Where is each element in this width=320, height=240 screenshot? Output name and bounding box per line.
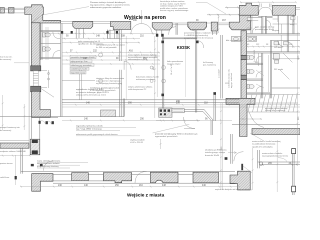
pilaster top band F + corner foot xyxy=(229,15,250,30)
svg-text:przewód wentylacyjny fi160 w o: przewód wentylacyjny fi160 w obudowie g-… xyxy=(155,133,198,136)
bottom-right door jamb dark xyxy=(241,164,243,170)
wall right vertical band xyxy=(241,31,247,56)
wall top-left corner mass xyxy=(25,5,61,23)
corridor south wall / hall north edge xyxy=(62,100,240,103)
svg-text:korytarz: korytarz xyxy=(272,29,279,32)
door diagonal left wall xyxy=(41,89,54,98)
svg-text:na podbudowie betonowej: na podbudowie betonowej xyxy=(252,143,276,146)
framed label hall 5 xyxy=(70,71,86,74)
EXTRA DETAIL xyxy=(99,7,300,127)
SMALL DARK JAMBS xyxy=(15,31,228,179)
dim string vertical x252 bottom right xyxy=(252,148,254,190)
INTERIOR PARTITIONS xyxy=(0,15,300,195)
door arc bottom-right inner xyxy=(234,152,244,162)
door arc kiosk elbow xyxy=(183,117,195,129)
door frame rect below block B xyxy=(108,30,120,38)
leader top-left annotation xyxy=(43,7,89,15)
arch top-right gap xyxy=(259,7,273,15)
corner mass diagonal xyxy=(32,15,43,23)
partition corridor east of kiosk xyxy=(221,35,223,99)
toilet right wall 2 xyxy=(247,69,249,73)
bottom band line lower xyxy=(53,182,235,184)
right rooms north partition y40 xyxy=(270,40,300,42)
right rooms vert partition x278 xyxy=(277,15,279,33)
door arc hall mid xyxy=(124,61,131,70)
right lower vertical pair xyxy=(230,134,232,164)
right rooms horiz y20.6 xyxy=(247,20,253,22)
door arc rooms above kiosk 2 xyxy=(188,23,196,31)
wall left band jamb upper xyxy=(31,66,41,71)
top right interior door arc b xyxy=(287,42,293,48)
top right room lines xyxy=(247,19,282,34)
framed label hall 3 xyxy=(70,63,94,66)
left wall inner face to bottom corner xyxy=(21,148,23,174)
dim ticks y120 xyxy=(70,119,221,121)
svg-text:WC: WC xyxy=(255,62,259,64)
radiator block mid xyxy=(101,110,116,117)
door leaf diagonal right room b xyxy=(280,70,289,79)
dim vertical far left xyxy=(2,95,4,130)
svg-text:parapet kamienny istn.: parapet kamienny istn. xyxy=(0,126,21,129)
partition rooms above kiosk xyxy=(176,23,177,35)
pier top band E xyxy=(211,22,217,31)
svg-text:poziom terenu: poziom terenu xyxy=(0,162,13,165)
wall bottom-left door pier xyxy=(30,139,40,155)
leader left margin text xyxy=(14,62,29,64)
dim vertical left margin xyxy=(23,104,25,130)
svg-text:odtworzenie profili gzymsowych: odtworzenie profili gzymsowych cokołu ka… xyxy=(76,133,118,136)
svg-text:h= 340 cm od posadzki: h= 340 cm od posadzki xyxy=(96,47,117,49)
jamb kiosk west top xyxy=(161,41,164,44)
dim string y46 top right xyxy=(246,46,300,48)
svg-text:cokolik kam. h=10: cokolik kam. h=10 xyxy=(71,69,88,71)
dim ticks x220 xyxy=(220,111,222,183)
circle symbol kiosk wall 2 xyxy=(162,79,166,83)
right rooms horiz partition y52 xyxy=(247,52,301,53)
DIMENSION LINES xyxy=(0,3,300,192)
svg-text:nawierzchnia z kostki kamienne: nawierzchnia z kostki kamiennej xyxy=(252,140,281,143)
svg-text:próg kamienny obniżony: próg kamienny obniżony xyxy=(37,166,59,168)
dim leader to north door xyxy=(141,10,143,23)
jamb bottom-left door top xyxy=(32,140,38,143)
svg-text:istniejące filary do wzmocnien: istniejące filary do wzmocnienia xyxy=(96,77,125,80)
dim ticks left margin xyxy=(23,107,25,127)
svg-text:parapety kamienne do renowacji: parapety kamienne do renowacji xyxy=(184,36,213,39)
dim vertical right inner x268 xyxy=(267,55,269,92)
svg-text:izolacja wełna mineralna gr. 1: izolacja wełna mineralna gr. 10cm xyxy=(76,94,106,96)
right rooms horiz y17.6 xyxy=(251,17,273,19)
jamb kiosk east top xyxy=(196,41,199,44)
partition left rooms horiz 2 xyxy=(41,42,61,44)
dim string top interior xyxy=(44,33,158,35)
grid bubble right lower xyxy=(259,162,263,166)
basin a xyxy=(234,37,239,40)
svg-text:fuga 3mm szara: fuga 3mm szara xyxy=(71,72,86,74)
wall bottom band block 2 xyxy=(103,173,131,183)
right rooms vert partition x270 xyxy=(270,41,271,99)
dim line left of corner mass xyxy=(225,7,240,9)
door arc bottom entrance xyxy=(135,171,147,183)
leader right lower note xyxy=(243,166,252,173)
svg-text:blat z umywalkami: blat z umywalkami xyxy=(226,39,243,42)
grid bubble hall b xyxy=(99,79,103,83)
sink right room a xyxy=(274,42,279,45)
right rooms south partition y33-35 xyxy=(247,34,301,35)
partition kiosk west wall xyxy=(162,37,163,109)
mullion squares kiosk corner xyxy=(160,109,162,111)
svg-text:wg zagospodarowania terenu: wg zagospodarowania terenu xyxy=(262,155,288,158)
bottom band line upper xyxy=(21,170,235,172)
stair walk line xyxy=(256,102,298,104)
tick line mid xyxy=(160,139,162,149)
door arc right rooms y33 xyxy=(252,27,258,34)
partition mid vertical lower xyxy=(123,99,124,117)
pilaster top band A xyxy=(73,21,93,28)
wall right vertical band low xyxy=(241,80,247,99)
dim ticks top interior xyxy=(58,33,154,35)
dim ticks bottom xyxy=(21,186,232,188)
svg-text:wg 7 wyp.1980r renowacja: wg 7 wyp.1980r renowacja xyxy=(76,127,103,130)
dim string hall horizontal y104 xyxy=(62,105,232,107)
dim string hall 0b xyxy=(62,42,140,44)
svg-text:lico muru istn.: lico muru istn. xyxy=(0,56,13,59)
right rooms extra verticals xyxy=(258,16,281,66)
window band segment 4 xyxy=(207,23,230,25)
right rooms corridor line y16 xyxy=(258,15,272,17)
door arc cell 1 xyxy=(256,56,262,62)
partition below pilaster C xyxy=(157,30,162,34)
window band segment 1 xyxy=(61,22,73,24)
partition left rooms vertical xyxy=(41,23,42,60)
wall lines right of mass xyxy=(296,7,300,9)
wall right band jamb xyxy=(241,55,247,59)
toilet left room 2 xyxy=(43,47,46,51)
jamb marks below left foot xyxy=(39,121,41,124)
grid bubble hall a xyxy=(99,53,103,57)
dim ticks x218 xyxy=(218,17,220,30)
leader right rooms xyxy=(256,70,264,88)
WALLS-GROUP xyxy=(0,3,300,191)
door leaf diagonal right room a xyxy=(283,53,292,62)
leader top-mid annotation xyxy=(196,3,226,14)
pilaster top band C xyxy=(152,23,172,30)
stair lower flight rail xyxy=(249,112,264,128)
circles left wall xyxy=(48,73,50,75)
axis line hall xyxy=(125,36,127,100)
svg-text:Wyjście na peron: Wyjście na peron xyxy=(124,15,166,21)
window band segment 2 xyxy=(93,22,111,24)
lower mid line y124 xyxy=(232,124,300,126)
svg-text:tynki renowacyjne kat. III: tynki renowacyjne kat. III xyxy=(78,40,100,43)
hall upper line y80 xyxy=(62,80,95,82)
svg-text:wg ekspertyzy konstrukcyjnej: wg ekspertyzy konstrukcyjnej xyxy=(96,82,122,85)
BOLD LABELS xyxy=(124,15,190,197)
dim short kiosk sw xyxy=(156,120,200,122)
jamb small mark x225 xyxy=(225,157,228,160)
dim vertical left x15.7 xyxy=(15,155,17,185)
svg-text:na ruszcie stalowym, płyta 2x1: na ruszcie stalowym, płyta 2x12.5 xyxy=(76,91,109,94)
svg-text:1 x 14x47: 1 x 14x47 xyxy=(218,68,220,78)
dim string vertical x277 bottom right xyxy=(276,140,278,192)
svg-text:układ wg rys. posadzek: układ wg rys. posadzek xyxy=(71,65,92,67)
wall bottom-right stepped mass xyxy=(230,171,250,190)
jamb bottom-left entry xyxy=(31,164,34,166)
basin b xyxy=(248,37,252,40)
dim line y104 right extension xyxy=(232,105,300,107)
right lower horizontals xyxy=(258,162,300,165)
door stubs left wall xyxy=(41,71,47,88)
right rooms horiz partition y79 xyxy=(247,79,263,80)
dim vertical top-mid x218 xyxy=(218,14,220,33)
svg-text:nowa stolarka drzwiowa: nowa stolarka drzwiowa xyxy=(37,159,61,162)
partition mid vertical upper xyxy=(119,30,121,117)
face line above left-bottom band xyxy=(0,140,29,142)
svg-text:spadek 2% od budynku: spadek 2% od budynku xyxy=(252,146,273,148)
dim ticks y104 xyxy=(75,104,297,106)
svg-text:witryna aluminiowa szklona: witryna aluminiowa szklona xyxy=(128,85,153,88)
svg-text:do renowacji: do renowacji xyxy=(0,130,12,132)
sink right room b xyxy=(284,42,289,45)
dim ticks x277 xyxy=(276,151,278,183)
right rooms horiz partition y63 xyxy=(247,63,263,64)
column marker 2 xyxy=(292,186,296,192)
mullion squares kiosk corner row2 xyxy=(160,113,162,115)
dim ticks hall 0a xyxy=(64,38,134,40)
STAIRS top-right xyxy=(247,95,300,113)
stair treads xyxy=(248,95,297,113)
wall left vertical band upper xyxy=(31,23,40,67)
circle symbol kiosk wall 1 xyxy=(162,66,166,70)
dim ticks right margin xyxy=(297,33,299,165)
svg-text:płyty granit gr. 3cm: płyty granit gr. 3cm xyxy=(71,60,88,63)
leader bottom-left annotations xyxy=(37,162,88,168)
wall bottom band block 1 xyxy=(72,173,89,181)
dim string left lower horizontal xyxy=(0,155,30,157)
door arcs main north entrance xyxy=(131,24,152,35)
svg-text:schody istn. renowacja: schody istn. renowacja xyxy=(265,109,286,112)
svg-text:WC męski: WC męski xyxy=(274,69,284,71)
partition below left mass xyxy=(251,15,252,33)
right rooms horiz partition y94 xyxy=(247,93,271,95)
fixtures top right small xyxy=(248,18,251,21)
wall face line left xyxy=(28,15,30,144)
toilet right wall 3 xyxy=(247,84,249,88)
dim string left upper interior xyxy=(46,27,48,60)
dim ticks hall 0b xyxy=(70,42,139,44)
basin c xyxy=(253,37,256,40)
circle symbol hall wall 1 xyxy=(150,66,153,69)
column axis right xyxy=(293,148,295,195)
dim string hall 4 xyxy=(62,63,160,65)
door arc left rooms xyxy=(53,32,60,58)
right rooms vert partition x262 upper xyxy=(262,17,263,34)
dim string hall 3 xyxy=(62,59,160,61)
svg-text:KIOSK: KIOSK xyxy=(177,45,190,50)
door frame lines top-right gap xyxy=(260,4,271,8)
wall top-right right mass xyxy=(273,5,296,15)
leader kiosk vent xyxy=(153,124,190,133)
wall left vertical band lower with foot xyxy=(31,91,50,117)
toilet left room 1 xyxy=(43,33,46,37)
shower tray right room xyxy=(273,54,279,60)
leader stairs note xyxy=(250,133,264,141)
kiosk counter bar xyxy=(172,109,184,113)
svg-text:instalacyjnego, rewizja: instalacyjnego, rewizja xyxy=(205,151,226,154)
kiosk mullion line xyxy=(184,39,186,97)
ANNOTATION TEXT BLOCKS (tiny) xyxy=(0,0,288,179)
svg-text:-0.02 = 210.31: -0.02 = 210.31 xyxy=(130,142,144,144)
svg-text:mocow. wg proj. warsztatowego: mocow. wg proj. warsztatowego xyxy=(160,9,189,12)
door arc corridor right of kiosk xyxy=(197,41,204,49)
svg-text:wejście do budynku od strony z: wejście do budynku od strony zachodniej xyxy=(215,188,252,191)
right lower corridor lines xyxy=(258,150,260,168)
partition below pier E xyxy=(212,31,216,35)
dim ticks x252 xyxy=(252,159,254,184)
partition kiosk east wall xyxy=(195,30,197,113)
svg-text:WC dam.: WC dam. xyxy=(274,47,283,49)
right rooms vert partition x293 xyxy=(293,15,294,33)
dim string vertical right margin xyxy=(296,16,298,164)
dim string top-right y2 xyxy=(240,1,296,3)
right lower dim ticks xyxy=(262,164,297,166)
door arc cell 2 xyxy=(256,72,262,78)
window band segment 3 xyxy=(172,23,188,25)
window lintel top-left xyxy=(0,8,4,13)
dim string y120 xyxy=(62,119,232,121)
window pier top-left xyxy=(8,8,14,13)
door arc cell 3 xyxy=(256,86,262,92)
right mid horiz y88 xyxy=(272,87,300,89)
door arc rooms above kiosk 1 xyxy=(169,27,177,35)
COLUMN MARKERS bottom right xyxy=(292,149,296,192)
dim ticks top-right xyxy=(240,1,297,3)
partition left rooms horiz 1 xyxy=(41,31,61,32)
svg-text:Wejście z miasta: Wejście z miasta xyxy=(127,192,165,197)
svg-text:1 x 14x17x29: 1 x 14x17x29 xyxy=(254,49,256,62)
svg-text:wg rys. rozbiórek: wg rys. rozbiórek xyxy=(231,73,233,88)
svg-text:do renowacji: do renowacji xyxy=(0,59,12,61)
small partition top right xyxy=(278,15,294,22)
tick line left wall xyxy=(48,70,50,88)
top right inner line y24 xyxy=(273,23,298,25)
kiosk sw corner block xyxy=(159,108,172,117)
stair boundary lines xyxy=(247,95,300,113)
svg-text:mag.: mag. xyxy=(290,24,295,26)
framed label hall 2 xyxy=(70,60,92,63)
DOOR ARCS interior xyxy=(41,23,293,183)
dim ticks hall xyxy=(66,51,159,65)
framed label hall 4 xyxy=(70,67,89,70)
right rooms vert partition x287 xyxy=(287,15,288,52)
dim string vertical x220 lower xyxy=(221,103,223,190)
jamb bottom-left door bottom xyxy=(32,150,38,154)
circle symbol hall wall 2 xyxy=(150,80,153,83)
right rooms cell wall x262 xyxy=(262,53,263,98)
svg-text:wyprawka tynkarska cokołu: wyprawka tynkarska cokołu xyxy=(76,125,103,128)
door arc right rooms y40 xyxy=(278,41,284,47)
hall south line xyxy=(0,116,124,119)
partition kiosk north xyxy=(162,37,196,40)
bottom band inner lines xyxy=(53,175,193,181)
DIMENSION NUMBERS (tiny) xyxy=(58,36,208,187)
wall right horizontal band xyxy=(226,98,255,136)
jamb kiosk east bottom xyxy=(213,92,216,95)
svg-text:odtworzenie gzymsów nadokien.: odtworzenie gzymsów nadokien. xyxy=(90,6,122,9)
dim string hall 2 xyxy=(62,55,160,57)
svg-text:nadproże stalowe 2xHEB140: nadproże stalowe 2xHEB140 xyxy=(0,150,27,153)
FIXTURES xyxy=(43,33,289,89)
hall vertical pair x80 xyxy=(80,66,82,100)
svg-text:cokół kam.: cokół kam. xyxy=(0,177,10,179)
wall block top band B xyxy=(111,21,131,29)
wall bottom band block 3 xyxy=(150,172,178,183)
svg-text:rozbiórka ścianki istn.: rozbiórka ścianki istn. xyxy=(228,68,231,88)
washbasin counter right of wall xyxy=(247,36,257,41)
wall bottom-left corner mass xyxy=(32,174,53,192)
jamb pair below pilaster C xyxy=(156,34,158,37)
left wall lower thin continuation xyxy=(32,118,40,139)
partition right of kiosk elbow xyxy=(214,92,216,121)
jamb pair below block B xyxy=(106,31,108,34)
dim ticks y46 xyxy=(247,46,299,48)
pilaster top band D xyxy=(188,22,207,30)
svg-text:wg zestawienia stolarki: wg zestawienia stolarki xyxy=(37,162,60,165)
wall top-right left mass xyxy=(240,3,259,15)
dim ticks left lower xyxy=(2,155,30,157)
small arcs below left foot xyxy=(41,121,51,124)
window lines top-left xyxy=(0,8,25,13)
leader mid-left annotations xyxy=(76,128,136,131)
right rooms vert partition x266 xyxy=(266,17,267,34)
dim string hall 0a xyxy=(62,38,140,40)
MAIN-LINES xyxy=(0,4,297,144)
dim string vertical left of kiosk xyxy=(155,36,157,118)
door arc bottom-left inner xyxy=(43,161,53,171)
wall bottom band block 4 xyxy=(193,172,219,183)
svg-text:drzwiczki 30x30: drzwiczki 30x30 xyxy=(205,155,220,157)
toilet right wall 1 xyxy=(247,55,249,59)
kiosk elbow partition xyxy=(184,109,212,135)
stair flight edge xyxy=(246,104,248,112)
wall left band gap frame xyxy=(33,71,38,86)
svg-text:wg proj. wnętrz: wg proj. wnętrz xyxy=(167,63,180,66)
svg-text:wyprowadzić ponad dach: wyprowadzić ponad dach xyxy=(155,136,177,138)
partition below pilaster A xyxy=(76,28,83,38)
wall bottom-left horizontal band xyxy=(0,143,29,148)
svg-text:szkło bezpieczne P2: szkło bezpieczne P2 xyxy=(128,89,147,91)
wall lower-right horizontal band xyxy=(252,129,300,135)
partition hall west wall xyxy=(61,23,62,116)
dim string hall 1 xyxy=(62,51,160,53)
dim string y119 right xyxy=(240,118,262,120)
dim string bottom xyxy=(20,186,240,188)
wall right vertical band mid xyxy=(241,60,247,75)
washbasin counter left of wall xyxy=(231,36,240,41)
right rooms extra horizontals xyxy=(247,59,301,93)
svg-text:sufit podwieszany GK na ruszci: sufit podwieszany GK na ruszcie xyxy=(96,43,126,46)
sink right mid room xyxy=(275,60,279,63)
column marker 1 xyxy=(292,149,296,154)
louvre rungs left band gap xyxy=(33,73,38,83)
partition left rooms horiz 3 xyxy=(41,58,61,59)
framed label hall 1 xyxy=(70,56,96,59)
wall left band jamb lower xyxy=(31,86,41,92)
jamb kiosk west bottom xyxy=(161,94,164,97)
top right interior door arc a xyxy=(266,20,271,26)
wall right band jamb 2 xyxy=(241,75,247,79)
dim line above band right xyxy=(207,14,239,16)
svg-text:pos. kamienna: pos. kamienna xyxy=(203,65,217,67)
